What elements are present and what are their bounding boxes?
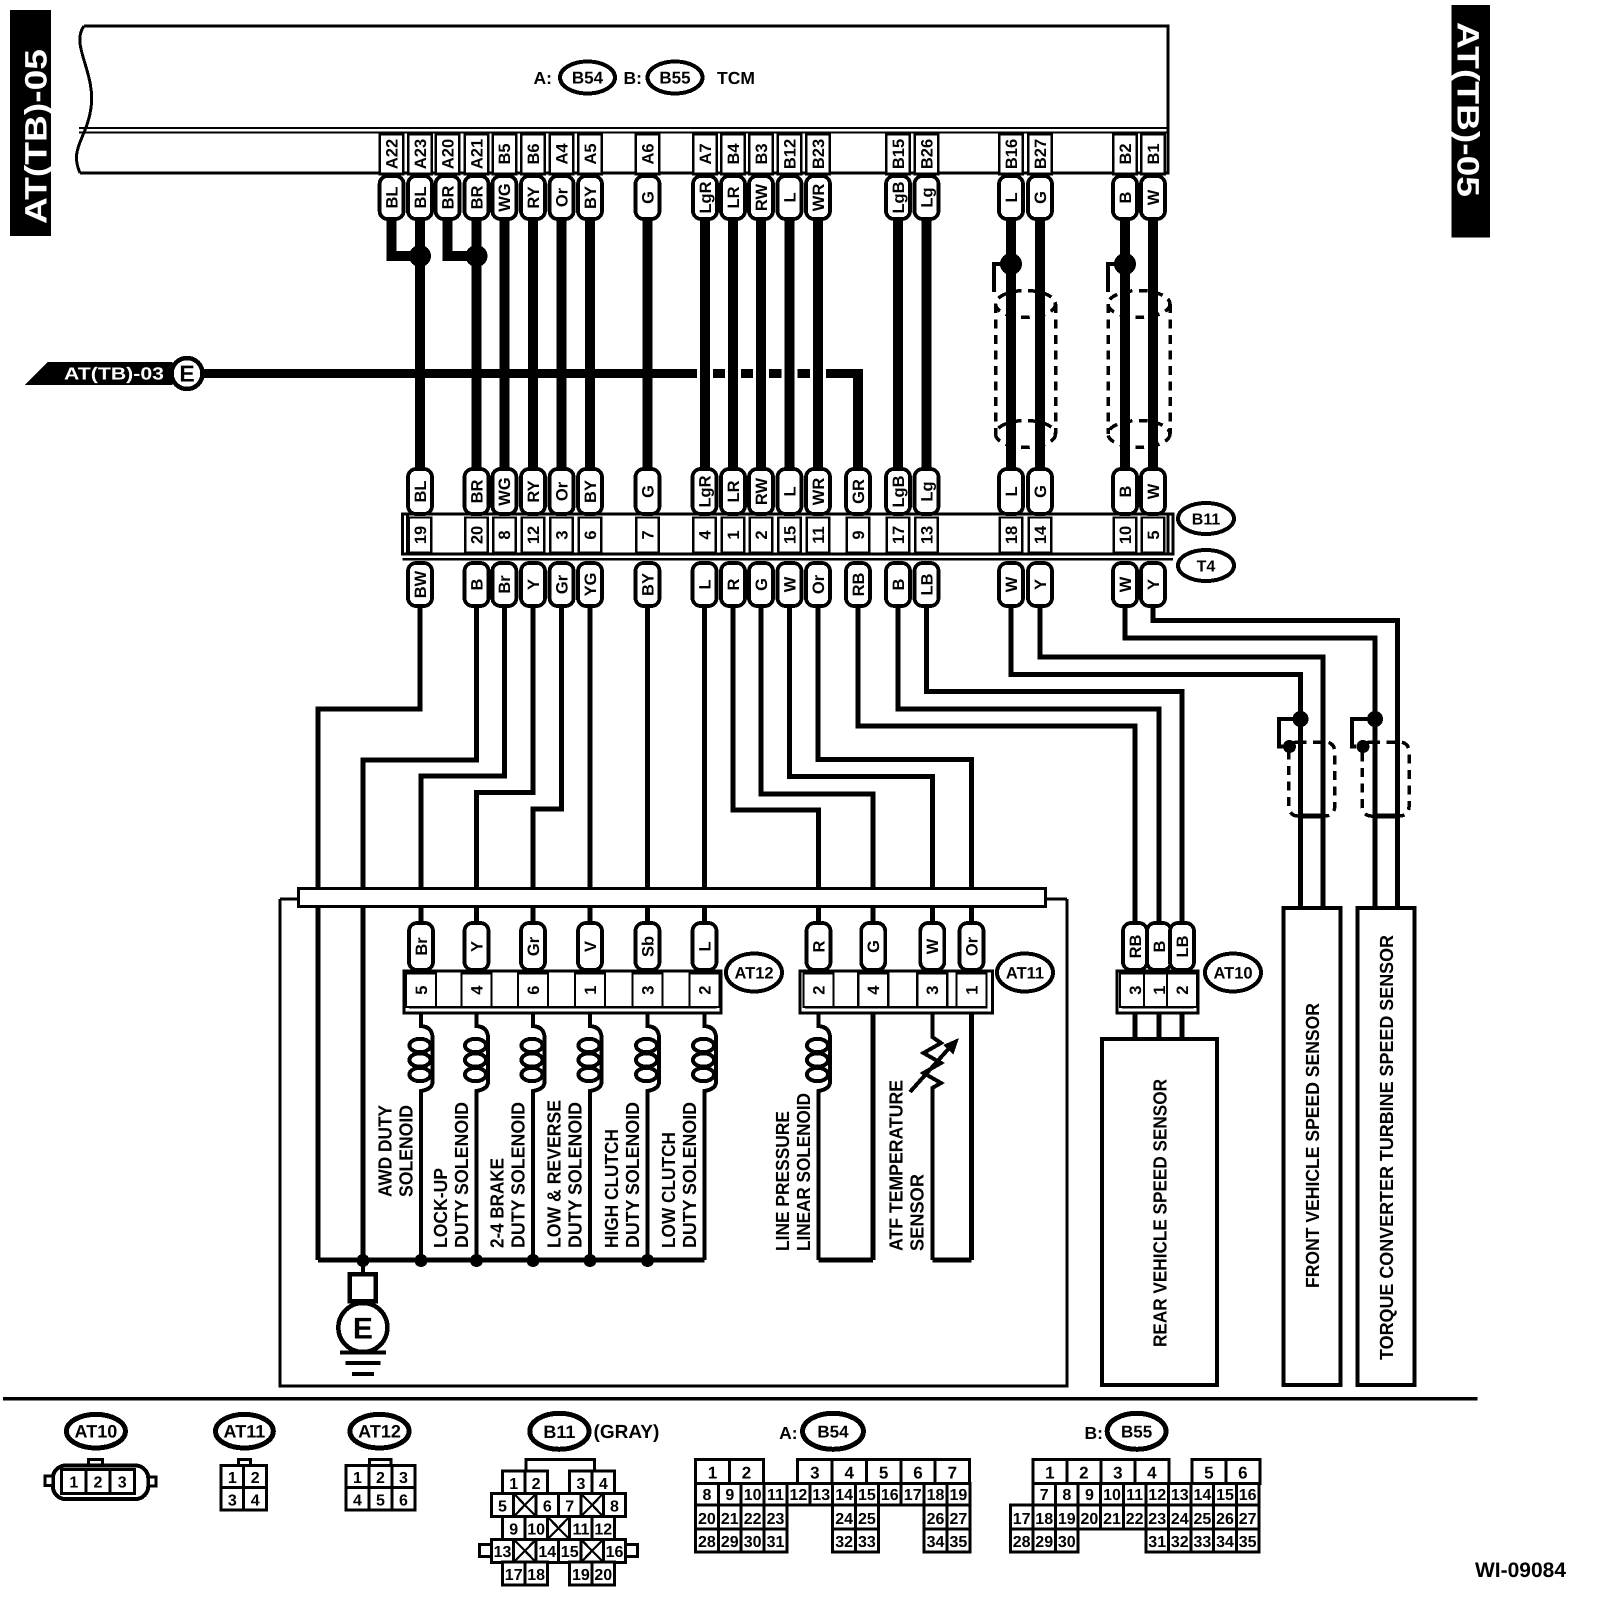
T4 pin number 6: [579, 518, 602, 553]
wire from TCM A7 down to T4 connector: [697, 219, 713, 469]
TCM pin A22: [380, 134, 404, 174]
svg-text:AT(TB)-03: AT(TB)-03: [64, 364, 164, 384]
svg-text:B55: B55: [1121, 1422, 1152, 1441]
wire colour L at TCM B16: [999, 176, 1023, 219]
svg-text:B54: B54: [817, 1422, 849, 1441]
TCM pin B6: [521, 134, 545, 174]
wire colour RW above T4 pin 2: [749, 469, 773, 514]
wire colour L at TCM B12: [778, 176, 802, 219]
svg-text:25: 25: [858, 1511, 876, 1528]
wire colour BY above T4 pin 6: [578, 469, 602, 514]
svg-text:14: 14: [538, 1544, 556, 1561]
wire from TCM A21 down to T4 connector: [472, 219, 482, 469]
wire colour L at AT12 pin 2: [693, 923, 717, 970]
svg-text:Br: Br: [496, 575, 514, 594]
shield drain front sensor: [1279, 719, 1301, 747]
wire from TCM A23 down to T4 connector: [415, 219, 425, 469]
wire colour B above T4 pin 10: [1113, 469, 1137, 514]
wire colour Or above T4 pin 3: [550, 469, 574, 514]
svg-text:5: 5: [1204, 1463, 1213, 1482]
svg-text:3: 3: [399, 1470, 408, 1487]
svg-text:Lg: Lg: [918, 187, 936, 207]
wire colour Lg above T4 pin 13: [915, 469, 939, 514]
svg-text:14: 14: [1032, 525, 1050, 544]
wire from TCM B15 down to T4 connector: [893, 219, 903, 469]
svg-text:1: 1: [1045, 1463, 1054, 1482]
svg-text:20: 20: [1081, 1511, 1099, 1528]
svg-text:B54: B54: [572, 69, 604, 88]
svg-text:7: 7: [565, 1498, 574, 1515]
wire from TCM B4 down to T4 connector: [725, 219, 741, 469]
T4 pin number 2: [750, 518, 773, 553]
front vehicle speed sensor box: [1284, 908, 1341, 1385]
svg-text:WR: WR: [810, 184, 828, 212]
T4 pin number 12: [522, 518, 545, 553]
ATF temperature sensor thermistor: [924, 1013, 942, 1260]
T4 pin number 13: [915, 518, 938, 553]
AT11 pin number 1: [957, 974, 987, 1008]
solenoid coil of AWD DUTY SOLENOID: [421, 1013, 433, 1260]
svg-text:G: G: [753, 578, 771, 591]
svg-text:BL: BL: [383, 187, 401, 209]
svg-text:4: 4: [353, 1492, 362, 1509]
svg-text:11: 11: [572, 1522, 589, 1539]
connector label AT10: [1205, 954, 1261, 992]
wire from TCM B23 down to T4 connector: [810, 219, 826, 469]
svg-text:17: 17: [1013, 1511, 1031, 1528]
wire colour V at AT12 pin 1: [578, 923, 602, 970]
svg-text:A:: A:: [534, 68, 552, 88]
connector label B11: [1178, 503, 1234, 534]
wire colour B below T4 pin 17: [886, 563, 910, 606]
wire colour Y below T4 pin 5: [1141, 563, 1165, 606]
wire colour Br at AT12 pin 5: [409, 923, 433, 970]
wire from T4 pin 3: [533, 606, 562, 923]
wire colour BR at TCM A21: [465, 176, 489, 219]
svg-text:1: 1: [708, 1463, 717, 1482]
shield symbol around B2/B1 pair: [1108, 291, 1170, 318]
svg-text:15: 15: [561, 1544, 579, 1561]
wire colour BY below T4 pin 7: [636, 563, 660, 606]
TCM pin B16: [999, 134, 1023, 174]
svg-text:18: 18: [927, 1487, 945, 1504]
svg-text:5: 5: [498, 1498, 507, 1515]
ground terminal: [361, 1260, 365, 1274]
wire colour G above T4 pin 14: [1028, 469, 1052, 514]
svg-text:4: 4: [865, 985, 883, 995]
wire from TCM A4 down to T4 connector: [557, 219, 567, 469]
svg-text:22: 22: [1126, 1511, 1144, 1528]
T4 pin number 5: [1142, 518, 1165, 553]
svg-text:HIGH CLUTCH: HIGH CLUTCH: [602, 1129, 623, 1248]
svg-text:4: 4: [251, 1492, 260, 1509]
svg-text:4: 4: [1147, 1463, 1157, 1482]
svg-text:WI-09084: WI-09084: [1475, 1559, 1566, 1582]
svg-text:A20: A20: [439, 139, 457, 169]
svg-text:8: 8: [1062, 1487, 1071, 1504]
svg-text:B11: B11: [543, 1422, 575, 1442]
connector label AT12: [726, 954, 782, 992]
svg-text:G: G: [1032, 191, 1050, 204]
connector label AT11: [997, 954, 1053, 992]
svg-text:B: B: [1151, 940, 1169, 952]
T4 pin number 18: [1000, 518, 1023, 553]
circle terminal E: [172, 358, 203, 389]
svg-text:LR: LR: [725, 480, 743, 502]
svg-text:R: R: [725, 578, 743, 590]
svg-text:33: 33: [1194, 1534, 1212, 1551]
wire from T4 pin 9: [858, 606, 1135, 923]
TCM pin B3: [749, 134, 773, 174]
svg-text:YG: YG: [582, 573, 600, 597]
svg-text:T4: T4: [1197, 558, 1216, 575]
AT11 pin number 3: [917, 974, 947, 1008]
wire colour RY above T4 pin 12: [521, 469, 545, 514]
svg-text:SOLENOID: SOLENOID: [396, 1105, 417, 1197]
svg-text:BL: BL: [412, 481, 430, 503]
svg-text:B6: B6: [525, 143, 543, 164]
svg-text:L: L: [1003, 486, 1021, 496]
svg-text:9: 9: [1085, 1487, 1094, 1504]
svg-text:V: V: [582, 941, 600, 952]
svg-text:RY: RY: [525, 186, 543, 208]
svg-text:B27: B27: [1032, 139, 1050, 169]
svg-text:RW: RW: [753, 183, 771, 211]
svg-text:Or: Or: [963, 936, 981, 956]
svg-text:21: 21: [721, 1511, 739, 1528]
wire colour WG above T4 pin 8: [492, 469, 516, 514]
svg-text:AT12: AT12: [358, 1422, 401, 1442]
T4 pin number 19: [409, 518, 432, 553]
TCM pin A4: [550, 134, 574, 174]
svg-text:12: 12: [594, 1522, 612, 1539]
svg-text:16: 16: [1239, 1487, 1257, 1504]
svg-text:Y: Y: [525, 579, 543, 590]
svg-text:DUTY SOLENOID: DUTY SOLENOID: [452, 1102, 473, 1248]
svg-text:33: 33: [858, 1534, 876, 1551]
rear vehicle speed sensor box: [1102, 1039, 1217, 1385]
wire colour Y below T4 pin 12: [521, 563, 545, 606]
svg-text:B2: B2: [1117, 143, 1135, 164]
wire colour Or at TCM A4: [550, 176, 574, 219]
wire colour W below T4 pin 18: [999, 563, 1023, 606]
wire colour WG at TCM B5: [492, 176, 516, 219]
wire from T4 pin 19: [318, 606, 420, 1260]
svg-text:REAR VEHICLE SPEED SENSOR: REAR VEHICLE SPEED SENSOR: [1151, 1079, 1172, 1347]
svg-text:2: 2: [532, 1476, 541, 1493]
svg-text:9: 9: [850, 530, 868, 539]
T4 pin number 15: [778, 518, 801, 553]
svg-text:B15: B15: [890, 139, 908, 169]
svg-text:2: 2: [94, 1475, 103, 1492]
junction on ground bus at x=362.9: [356, 1254, 369, 1267]
svg-text:B12: B12: [781, 139, 799, 169]
svg-text:34: 34: [1216, 1534, 1234, 1551]
svg-text:B55: B55: [659, 69, 690, 88]
svg-text:10: 10: [527, 1522, 545, 1539]
svg-text:35: 35: [950, 1534, 968, 1551]
svg-text:Gr: Gr: [553, 574, 571, 594]
svg-text:12: 12: [1148, 1487, 1166, 1504]
svg-text:12: 12: [525, 526, 543, 544]
svg-text:27: 27: [1239, 1511, 1257, 1528]
svg-text:3: 3: [553, 530, 571, 539]
wire from T4 pin 12: [477, 606, 534, 923]
wire colour G at AT11 pin 4: [861, 923, 885, 970]
svg-text:1: 1: [725, 530, 743, 539]
wire colour Sb at AT12 pin 3: [636, 923, 660, 970]
pinout AT12: [350, 1414, 409, 1448]
svg-text:W: W: [1003, 576, 1021, 592]
svg-text:2: 2: [696, 986, 714, 995]
wire colour RB below T4 pin 9: [846, 563, 870, 606]
svg-text:6: 6: [543, 1498, 552, 1515]
junction on ground bus at x=476.5: [470, 1254, 483, 1267]
svg-text:L: L: [781, 192, 799, 202]
T4 pin number 17: [887, 518, 910, 553]
svg-text:Or: Or: [810, 574, 828, 594]
T4 pin number 7: [636, 518, 659, 553]
svg-text:20: 20: [698, 1511, 716, 1528]
TCM pin B1: [1141, 134, 1165, 174]
shield symbol at front vehicle speed sensor: [1289, 742, 1335, 816]
AT11 pin number 4: [858, 974, 888, 1008]
wire from T4 pin 15: [790, 606, 933, 923]
svg-text:3: 3: [810, 1463, 819, 1482]
wire colour Or at AT11 pin 1: [960, 923, 984, 970]
svg-text:L: L: [1003, 192, 1021, 202]
svg-text:6: 6: [525, 986, 543, 995]
TCM pin B5: [493, 134, 516, 174]
wire colour BL above T4 pin 19: [408, 469, 432, 514]
wire colour Y below T4 pin 14: [1028, 563, 1052, 606]
AT12 pin number 3: [633, 974, 663, 1008]
svg-text:AT10: AT10: [1213, 964, 1252, 982]
TCM module box: [80, 26, 1168, 173]
T4 pin number 8: [493, 518, 515, 553]
svg-text:WG: WG: [496, 183, 514, 211]
svg-text:L: L: [781, 486, 799, 496]
connector AT12 body: [404, 971, 721, 1013]
svg-text:G: G: [639, 191, 657, 204]
T4 pin number 4: [693, 518, 716, 553]
svg-text:17: 17: [890, 526, 908, 544]
svg-text:ATF TEMPERATURE: ATF TEMPERATURE: [887, 1080, 908, 1251]
AT12 pin number 2: [690, 974, 720, 1008]
svg-text:BW: BW: [412, 570, 430, 598]
line pressure linear solenoid bottom: [819, 1258, 874, 1263]
svg-text:A:: A:: [779, 1423, 797, 1443]
wire colour Gr at AT12 pin 6: [521, 923, 545, 970]
svg-text:2: 2: [376, 1470, 385, 1487]
svg-text:(GRAY): (GRAY): [594, 1422, 660, 1443]
wire colour L below T4 pin 4: [693, 563, 717, 606]
svg-text:14: 14: [1194, 1487, 1212, 1504]
svg-text:B26: B26: [918, 139, 936, 169]
svg-text:TCM: TCM: [717, 68, 755, 88]
wire colour Gr below T4 pin 3: [550, 563, 574, 606]
wire from TCM B16 down to T4 connector: [1006, 219, 1016, 469]
svg-text:26: 26: [927, 1511, 945, 1528]
svg-text:BY: BY: [582, 186, 600, 209]
solenoid coil of LOW CLUTCH DUTY SOLENOID: [705, 1013, 717, 1260]
svg-text:4: 4: [844, 1463, 854, 1482]
T4 pin number 9: [847, 518, 870, 553]
svg-text:4: 4: [599, 1476, 608, 1493]
svg-text:6: 6: [1238, 1463, 1247, 1482]
wire colour WR at TCM B23: [806, 176, 830, 219]
wire colour G at TCM B27: [1028, 176, 1052, 219]
wire colour BL at TCM A23: [408, 176, 432, 219]
svg-text:30: 30: [1058, 1534, 1076, 1551]
junction A22/A23: [409, 245, 431, 267]
wire colour W below T4 pin 10: [1113, 563, 1137, 606]
solenoid coil of 2-4 BRAKE DUTY SOLENOID: [533, 1013, 545, 1260]
svg-text:AT11: AT11: [224, 1422, 266, 1442]
wire colour LR above T4 pin 1: [721, 469, 745, 514]
svg-text:SENSOR: SENSOR: [908, 1174, 929, 1251]
wire colour RB at AT10 pin 3: [1123, 923, 1147, 970]
svg-text:13: 13: [494, 1544, 512, 1561]
svg-text:23: 23: [767, 1511, 785, 1528]
svg-text:19: 19: [1058, 1511, 1076, 1528]
svg-text:10: 10: [1103, 1487, 1121, 1504]
svg-text:2: 2: [1079, 1463, 1088, 1482]
shield drain of B16 pair: [994, 264, 1011, 292]
wire from T4 pin 1: [733, 606, 819, 923]
wire from TCM B1 down to T4 connector: [1148, 219, 1158, 469]
junction on ground bus at x=590: [584, 1254, 597, 1267]
wire from T4 pin 8: [421, 606, 504, 923]
svg-text:B1: B1: [1145, 143, 1163, 164]
wire from T4 pin 11: [818, 606, 972, 923]
wire colour GR above T4 pin 9: [846, 469, 870, 514]
wire AT(TB)-03 E to T4 pin 9: [203, 369, 854, 378]
svg-text:DUTY SOLENOID: DUTY SOLENOID: [623, 1102, 644, 1248]
svg-text:9: 9: [725, 1487, 734, 1504]
separator line: [3, 1397, 1478, 1401]
wire colour B below T4 pin 20: [465, 563, 489, 606]
wire colour LgB above T4 pin 17: [886, 469, 910, 514]
wire from TCM B2 down to T4 connector: [1120, 219, 1130, 469]
AT10 pin number 3: [1120, 974, 1150, 1008]
svg-text:AT(TB)-05: AT(TB)-05: [1451, 22, 1486, 197]
wire colour LB below T4 pin 13: [915, 563, 939, 606]
svg-text:13: 13: [1171, 1487, 1189, 1504]
wire from T4 pin 2: [761, 606, 873, 923]
svg-text:8: 8: [610, 1498, 619, 1515]
svg-text:20: 20: [594, 1567, 612, 1584]
wire from T4 pin 10: [1125, 606, 1375, 908]
svg-text:13: 13: [918, 526, 936, 544]
wire colour LgR above T4 pin 4: [693, 469, 717, 514]
wires AT10 to rear sensor: [1133, 1013, 1138, 1039]
svg-text:B23: B23: [810, 139, 828, 169]
solenoid coil of HIGH CLUTCH DUTY SOLENOID: [648, 1013, 660, 1260]
junction on ground bus at x=647.5: [641, 1254, 654, 1267]
svg-text:7: 7: [948, 1463, 957, 1482]
wire colour BW below T4 pin 19: [408, 563, 432, 606]
svg-text:E: E: [179, 361, 194, 387]
svg-text:LgB: LgB: [890, 475, 908, 507]
svg-text:Or: Or: [553, 187, 571, 207]
wire from T4 pin 13: [927, 606, 1183, 923]
svg-text:10: 10: [744, 1487, 762, 1504]
svg-text:22: 22: [744, 1511, 762, 1528]
wire colour B at TCM B2: [1113, 176, 1137, 219]
svg-text:B:: B:: [1085, 1423, 1103, 1443]
svg-text:R: R: [810, 940, 828, 952]
svg-text:A7: A7: [697, 143, 715, 164]
svg-text:1: 1: [963, 986, 981, 995]
svg-text:W: W: [924, 938, 942, 954]
TCM pin A5: [578, 134, 602, 174]
svg-text:BL: BL: [412, 187, 430, 209]
ATF temperature sensor bottom: [932, 1258, 971, 1263]
svg-text:3: 3: [924, 986, 942, 995]
shield drain torque sensor: [1352, 719, 1375, 747]
svg-text:2: 2: [251, 1470, 260, 1487]
wire from TCM B6 down to T4 connector: [528, 219, 538, 469]
svg-text:11: 11: [767, 1487, 784, 1504]
svg-text:B:: B:: [624, 68, 642, 88]
page banner left AT(TB)-05: [10, 10, 51, 236]
wire from T4 pin 17: [898, 606, 1159, 923]
junction A20/A21: [466, 245, 488, 267]
svg-text:1: 1: [228, 1470, 237, 1487]
wire from T4 pin 7: [645, 606, 650, 923]
transmission enclosure box: [280, 899, 1067, 1386]
T4 pin number 1: [722, 518, 745, 553]
AT10 pin number 2: [1167, 974, 1197, 1008]
svg-text:5: 5: [879, 1463, 888, 1482]
svg-text:17: 17: [505, 1567, 523, 1584]
svg-text:14: 14: [835, 1487, 853, 1504]
svg-text:31: 31: [767, 1534, 785, 1551]
AT12 pin number 6: [518, 974, 548, 1008]
svg-text:B: B: [468, 578, 486, 590]
TCM pin B2: [1113, 134, 1137, 174]
svg-text:15: 15: [1216, 1487, 1234, 1504]
svg-text:L: L: [696, 941, 714, 951]
svg-text:BR: BR: [468, 186, 486, 210]
wire colour RW at TCM B3: [749, 176, 773, 219]
wire from TCM B27 down to T4 connector: [1035, 219, 1045, 469]
svg-text:19: 19: [412, 526, 430, 544]
svg-text:16: 16: [606, 1544, 624, 1561]
T4 pin number 11: [807, 518, 830, 553]
svg-text:WR: WR: [810, 478, 828, 506]
svg-text:6: 6: [399, 1492, 408, 1509]
svg-text:9: 9: [509, 1522, 518, 1539]
svg-text:RB: RB: [1127, 935, 1145, 959]
svg-text:15: 15: [781, 526, 799, 544]
wire colour W at AT11 pin 3: [920, 923, 944, 970]
svg-text:B3: B3: [753, 143, 771, 164]
svg-text:G: G: [865, 940, 883, 953]
T4 pin number 20: [465, 518, 488, 553]
wire colour Lg at TCM B26: [915, 176, 939, 219]
svg-text:3: 3: [639, 986, 657, 995]
TCM pin B4: [721, 134, 745, 174]
TCM pin A6: [636, 134, 660, 174]
svg-text:28: 28: [1013, 1534, 1031, 1551]
svg-text:18: 18: [1035, 1511, 1053, 1528]
AT12 pin number 1: [575, 974, 605, 1008]
svg-text:8: 8: [702, 1487, 711, 1504]
svg-text:32: 32: [1171, 1534, 1189, 1551]
svg-text:BY: BY: [582, 480, 600, 503]
